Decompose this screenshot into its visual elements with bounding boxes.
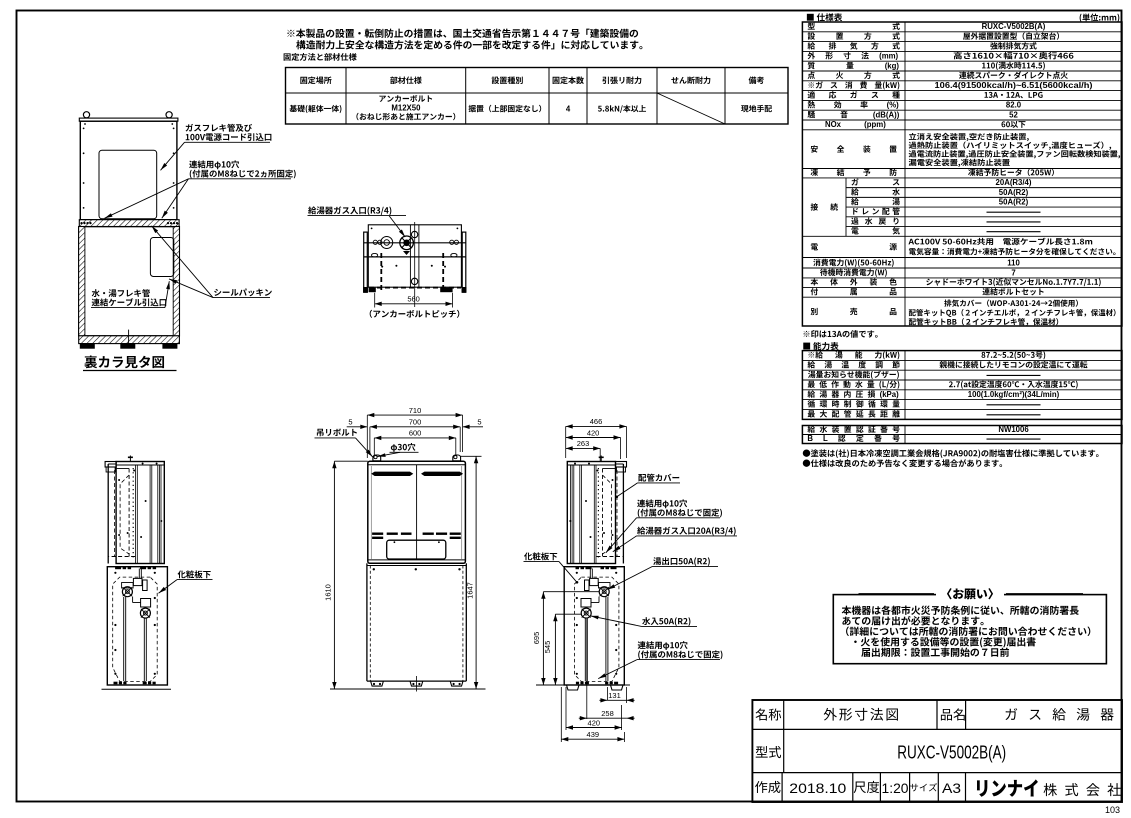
svg-text:RUXC-V5002B(A): RUXC-V5002B(A) xyxy=(897,743,1006,763)
svg-text:5: 5 xyxy=(477,418,481,427)
svg-text:420: 420 xyxy=(588,718,601,727)
svg-text:110: 110 xyxy=(1007,258,1020,267)
svg-text:B: B xyxy=(807,434,813,443)
svg-text:100(1.0kgf/cm²)(34L/min): 100(1.0kgf/cm²)(34L/min) xyxy=(968,390,1060,399)
svg-text:NW1006: NW1006 xyxy=(998,425,1029,434)
svg-text:52: 52 xyxy=(1009,110,1018,119)
svg-text:1647: 1647 xyxy=(465,582,474,599)
svg-text:258: 258 xyxy=(601,709,614,718)
svg-text:700: 700 xyxy=(409,418,422,427)
svg-text:L: L xyxy=(823,434,828,443)
svg-text:RUXC-V5002B(A): RUXC-V5002B(A) xyxy=(982,22,1046,31)
svg-text:103: 103 xyxy=(1105,805,1120,815)
svg-text:(dB(A)): (dB(A)) xyxy=(873,110,900,119)
svg-text:1610: 1610 xyxy=(324,584,333,601)
svg-text:420: 420 xyxy=(587,428,600,437)
svg-text:545: 545 xyxy=(543,641,552,654)
svg-text:695: 695 xyxy=(532,632,541,645)
svg-text:7: 7 xyxy=(1011,268,1015,277)
svg-text:131: 131 xyxy=(608,691,621,700)
svg-text:NOx: NOx xyxy=(825,120,842,129)
svg-text:(%): (%) xyxy=(887,101,900,110)
svg-text:(ppm): (ppm) xyxy=(864,120,886,129)
svg-text:82.0: 82.0 xyxy=(1006,101,1022,110)
svg-text:50A(R2): 50A(R2) xyxy=(999,198,1029,207)
svg-text:1:20: 1:20 xyxy=(882,780,909,796)
svg-text:466: 466 xyxy=(590,417,603,426)
svg-text:M12X50: M12X50 xyxy=(391,104,421,113)
svg-text:560: 560 xyxy=(407,295,420,304)
svg-text:(kg): (kg) xyxy=(885,61,900,70)
svg-text:263: 263 xyxy=(577,439,590,448)
svg-text:(mm): (mm) xyxy=(879,52,898,61)
svg-text:(kPa): (kPa) xyxy=(880,390,899,399)
svg-text:5: 5 xyxy=(348,418,352,427)
svg-text:600: 600 xyxy=(409,429,422,438)
svg-text:50A(R2): 50A(R2) xyxy=(999,188,1029,197)
svg-text:439: 439 xyxy=(587,730,600,739)
svg-text:A3: A3 xyxy=(942,780,961,796)
svg-text:710: 710 xyxy=(409,406,422,415)
svg-text:2018.10: 2018.10 xyxy=(789,780,846,796)
svg-text:106.4(91500kcal/h)~6.51(5600kc: 106.4(91500kcal/h)~6.51(5600kcal/h) xyxy=(935,81,1093,90)
svg-text:4: 4 xyxy=(566,105,571,114)
svg-text:20A(R3/4): 20A(R3/4) xyxy=(996,178,1032,187)
